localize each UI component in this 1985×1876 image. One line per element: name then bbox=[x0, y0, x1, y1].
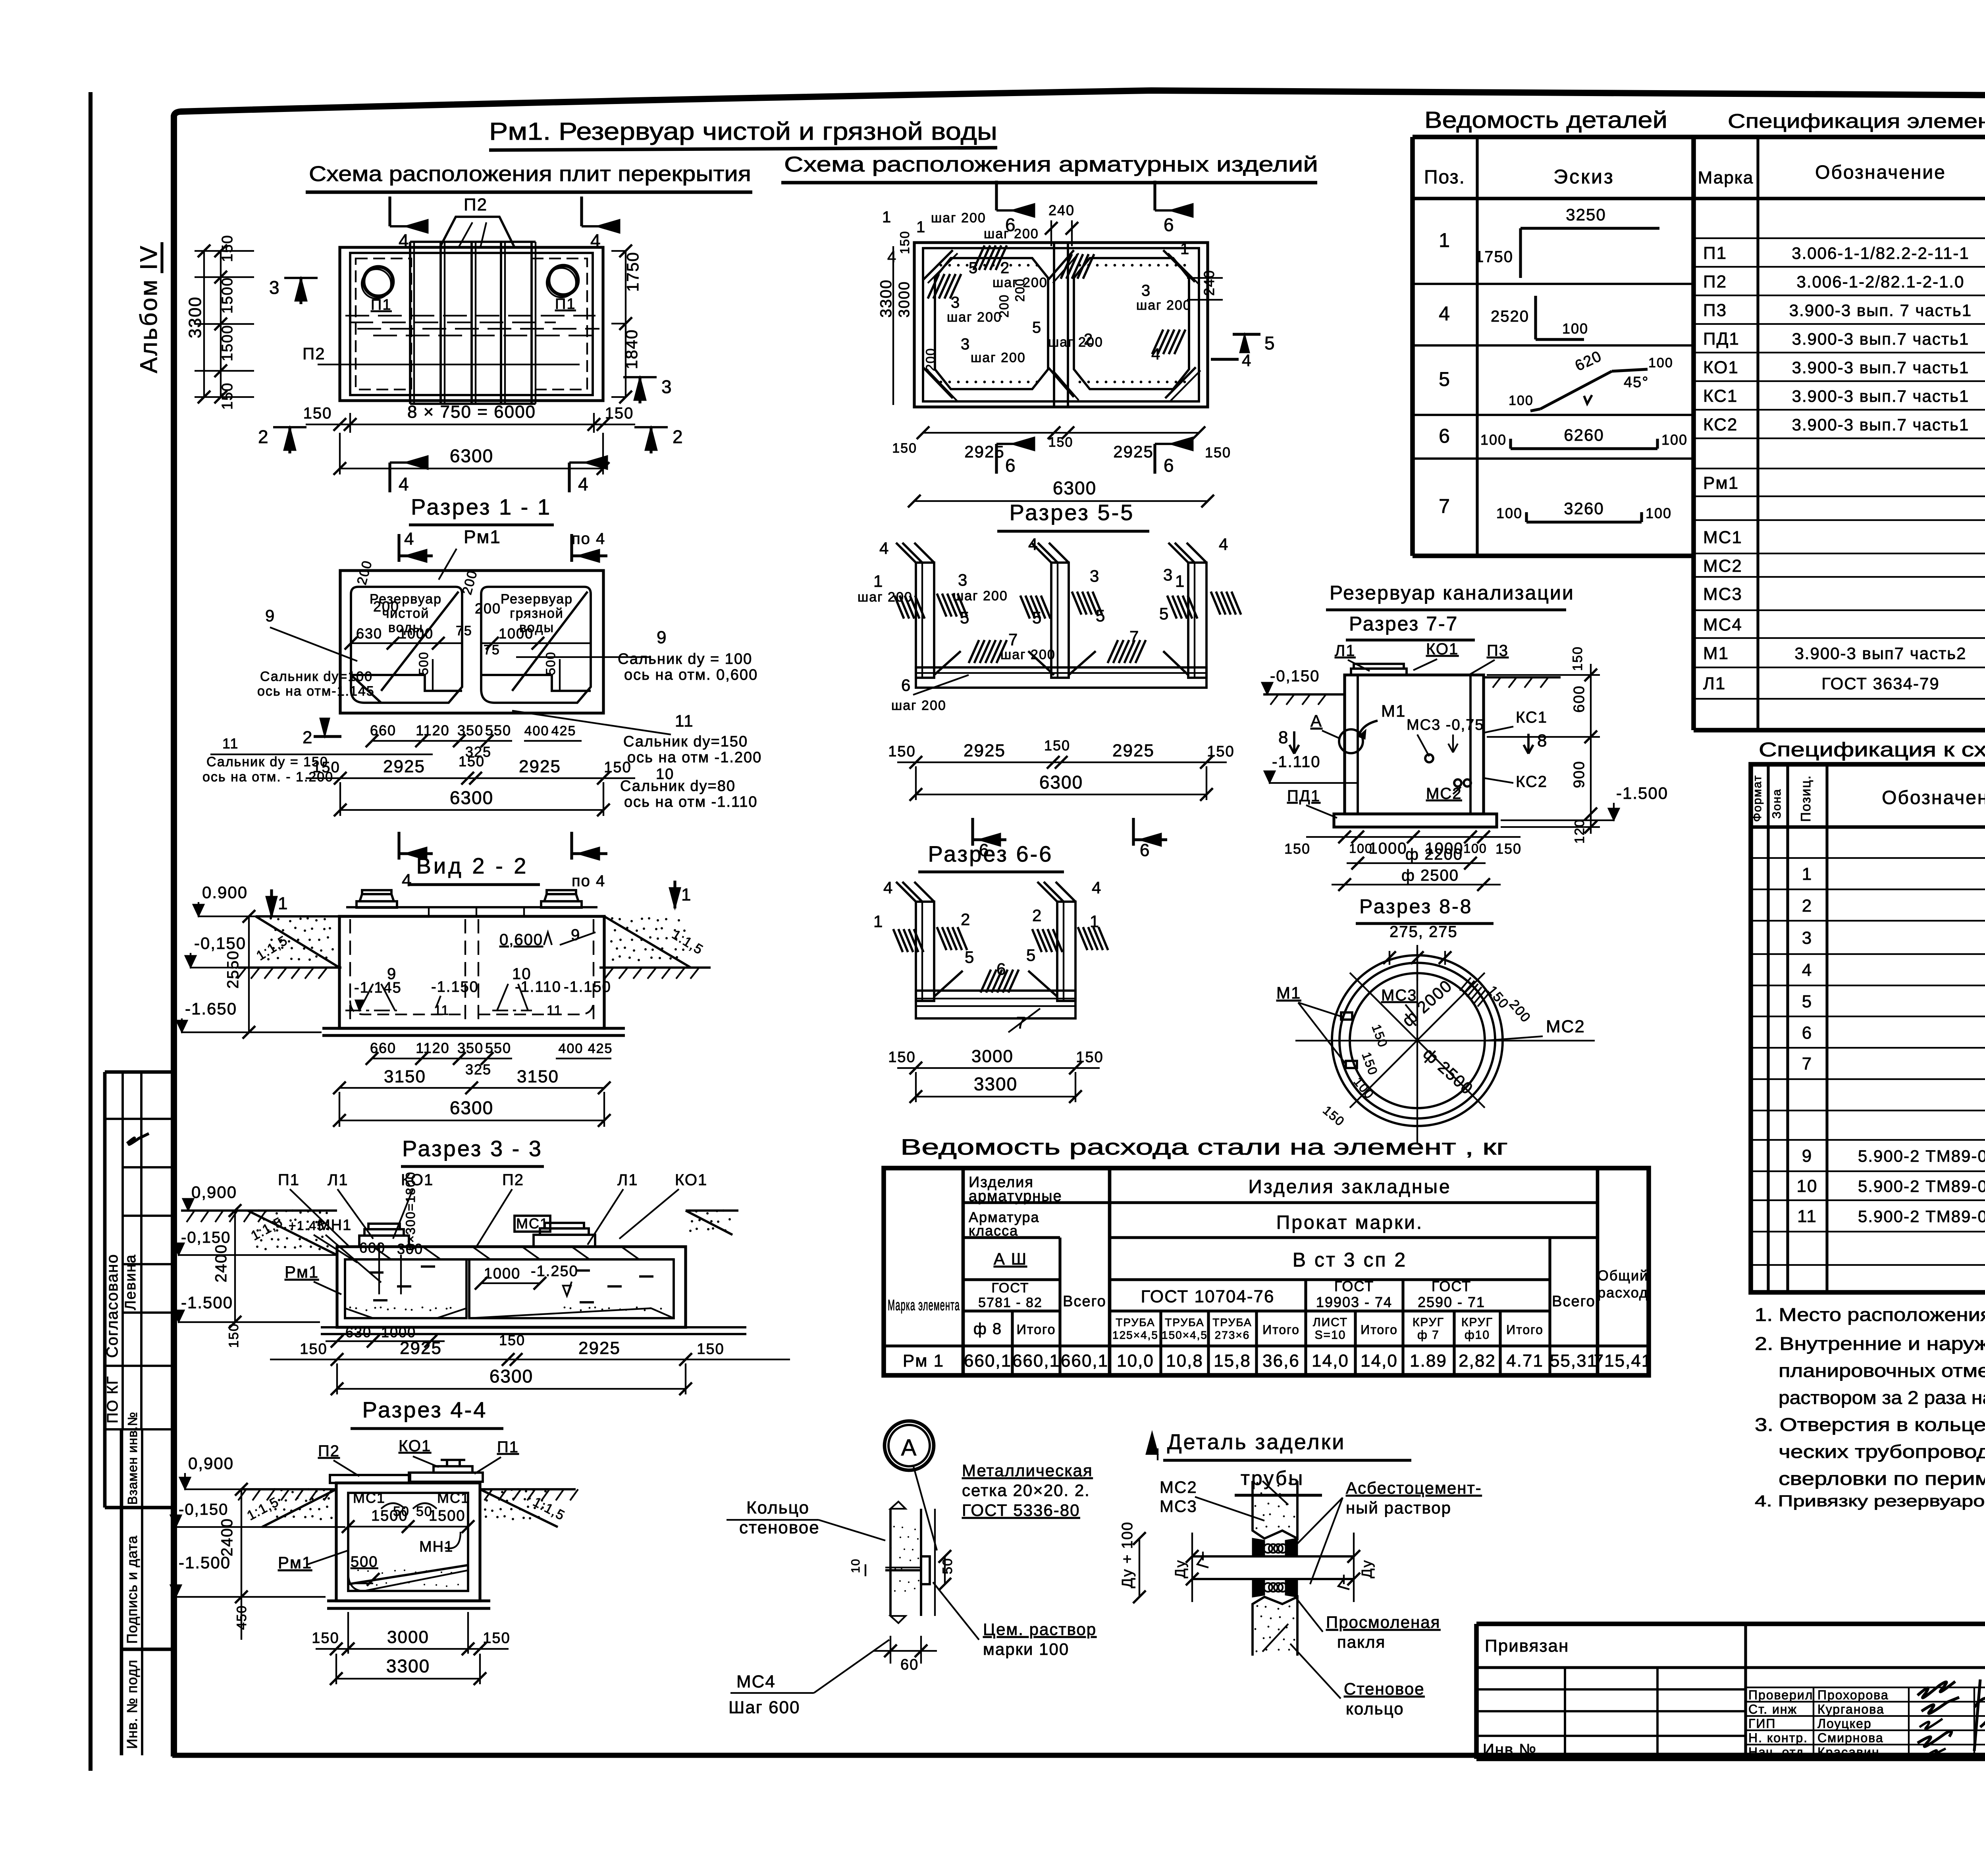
r55 dims bbox=[897, 762, 1227, 763]
svg-text:2: 2 bbox=[1032, 906, 1042, 925]
svg-text:1120: 1120 bbox=[416, 722, 449, 738]
svg-text:200: 200 bbox=[475, 600, 501, 617]
r66 rebar hatches bbox=[893, 929, 903, 952]
svg-text:660,1: 660,1 bbox=[1061, 1351, 1108, 1371]
svg-text:7: 7 bbox=[1439, 495, 1451, 517]
svg-text:4.71: 4.71 bbox=[1506, 1351, 1544, 1371]
left stamp boxes Согласовано bbox=[105, 1070, 172, 1074]
svg-text:Марка: Марка bbox=[1698, 168, 1754, 187]
svg-text:Спецификация элементов к ре: Спецификация элементов к резервуарам РМ1… bbox=[1728, 110, 1985, 132]
svg-text:4: 4 bbox=[1439, 303, 1451, 325]
svg-text:1500: 1500 bbox=[219, 277, 236, 314]
svg-text:ЛИСТ: ЛИСТ bbox=[1313, 1316, 1348, 1329]
svg-text:4: 4 bbox=[887, 248, 897, 266]
svg-text:1: 1 bbox=[1802, 864, 1812, 884]
v22 top slab and manholes bbox=[339, 915, 604, 918]
svg-text:0,600: 0,600 bbox=[499, 931, 543, 949]
r66 bottom slab bbox=[916, 991, 1075, 1018]
left stamp Подпись и дата bbox=[121, 1648, 172, 1651]
plan2 corner diagonals bbox=[923, 250, 953, 280]
svg-text:600: 600 bbox=[1571, 685, 1588, 713]
svg-text:3. Отверстия в кольце КС2 р: 3. Отверстия в кольце КС2 резервуара для… bbox=[1755, 1414, 1985, 1435]
detail wall fragment left bbox=[889, 1509, 892, 1616]
svg-text:шаг 200: шаг 200 bbox=[947, 310, 1002, 325]
svg-text:150: 150 bbox=[459, 753, 485, 769]
svg-text:Деталь заделки: Деталь заделки bbox=[1167, 1430, 1345, 1454]
svg-text:150: 150 bbox=[219, 235, 236, 262]
r77 bottom dims bbox=[1306, 836, 1521, 838]
r44 ground lines bbox=[240, 1488, 336, 1490]
svg-text:Изделия закладные: Изделия закладные bbox=[1248, 1176, 1451, 1197]
svg-text:шаг 200: шаг 200 bbox=[931, 210, 986, 226]
svg-text:900: 900 bbox=[1571, 761, 1588, 788]
svg-text:3: 3 bbox=[1090, 567, 1100, 585]
svg-text:марки 100: марки 100 bbox=[983, 1640, 1069, 1658]
svg-text:МС2: МС2 bbox=[1160, 1478, 1197, 1496]
svg-text:ось на отм -1.110: ось на отм -1.110 bbox=[624, 794, 757, 810]
svg-text:Общий: Общий bbox=[1598, 1267, 1648, 1284]
r33 tank body bbox=[337, 1247, 686, 1327]
v22 embankment right bbox=[604, 916, 691, 968]
svg-text:9: 9 bbox=[387, 965, 397, 983]
svg-text:5: 5 bbox=[1439, 368, 1451, 390]
svg-text:МС3: МС3 bbox=[1703, 584, 1742, 604]
svg-text:100: 100 bbox=[1661, 432, 1688, 448]
svg-text:1750: 1750 bbox=[1475, 248, 1513, 266]
svg-text:1000: 1000 bbox=[399, 625, 434, 642]
svg-text:кольцо: кольцо bbox=[1346, 1699, 1404, 1718]
svg-text:-0,150: -0,150 bbox=[194, 934, 246, 952]
svg-text:П2: П2 bbox=[1703, 272, 1727, 291]
svg-text:Позиц.: Позиц. bbox=[1798, 775, 1813, 822]
svg-text:1: 1 bbox=[916, 218, 926, 236]
svg-text:36,6: 36,6 bbox=[1262, 1351, 1300, 1371]
svg-text:Рм 1: Рм 1 bbox=[903, 1351, 944, 1371]
svg-text:2. Внутренние и наружные по: 2. Внутренние и наружные поверхности сте… bbox=[1755, 1333, 1985, 1354]
svg-text:Смирнова: Смирнова bbox=[1817, 1731, 1884, 1745]
r77 right dim chain bbox=[1590, 664, 1592, 834]
svg-text:Л1: Л1 bbox=[1703, 674, 1726, 693]
svg-text:3.900-3 вып7 часть2: 3.900-3 вып7 часть2 bbox=[1794, 644, 1966, 663]
r55 walls bbox=[916, 563, 934, 678]
detail 60 dim bbox=[890, 1636, 891, 1664]
svg-text:3150: 3150 bbox=[384, 1067, 426, 1086]
svg-text:2400: 2400 bbox=[212, 1244, 230, 1282]
svg-text:ПО КГ: ПО КГ bbox=[104, 1376, 121, 1423]
svg-text:1000: 1000 bbox=[381, 1324, 416, 1340]
svg-text:4: 4 bbox=[883, 878, 893, 897]
r11 chamber left bbox=[351, 587, 462, 703]
r77 ground lines bbox=[1263, 693, 1345, 696]
svg-text:Сальник dу=100: Сальник dу=100 bbox=[260, 669, 373, 684]
svg-text:раствором за 2 раза на тол: раствором за 2 раза на толщину 25 мм. bbox=[1779, 1387, 1985, 1408]
svg-text:5: 5 bbox=[1032, 319, 1042, 336]
svg-text:7: 7 bbox=[1802, 1054, 1812, 1074]
svg-text:Сальник dу = 150: Сальник dу = 150 bbox=[206, 754, 328, 769]
detail Ду+100 dim bbox=[1139, 1539, 1140, 1597]
svg-text:1: 1 bbox=[681, 885, 692, 904]
svg-text:КС1: КС1 bbox=[1516, 709, 1548, 726]
svg-text:-1.500: -1.500 bbox=[181, 1293, 233, 1312]
svg-text:8: 8 bbox=[1278, 728, 1289, 747]
svg-text:шаг 200: шаг 200 bbox=[953, 588, 1008, 603]
svg-text:6300: 6300 bbox=[450, 445, 493, 466]
title block signatures bbox=[1744, 1624, 1747, 1759]
svg-text:КО1: КО1 bbox=[1703, 358, 1739, 377]
svg-text:150: 150 bbox=[219, 382, 236, 410]
svg-text:Разрез 7-7: Разрез 7-7 bbox=[1349, 613, 1458, 635]
svg-text:150: 150 bbox=[604, 759, 631, 776]
svg-text:5: 5 bbox=[965, 948, 975, 966]
svg-text:ф 2200: ф 2200 bbox=[1405, 846, 1463, 863]
svg-text:Итого: Итого bbox=[1016, 1322, 1056, 1337]
svg-text:5: 5 bbox=[1264, 333, 1276, 353]
r11 outer box bbox=[340, 571, 603, 713]
svg-text:А: А bbox=[901, 1435, 917, 1461]
svg-text:П3: П3 bbox=[1703, 301, 1727, 320]
svg-text:-0,150: -0,150 bbox=[1270, 667, 1320, 685]
svg-text:150: 150 bbox=[1284, 841, 1310, 857]
v22 tank body bbox=[339, 916, 604, 1028]
svg-text:4: 4 bbox=[1242, 351, 1252, 370]
svg-text:-1.250: -1.250 bbox=[531, 1263, 578, 1280]
svg-text:3000: 3000 bbox=[971, 1047, 1014, 1066]
svg-text:ГОСТ 3634-79: ГОСТ 3634-79 bbox=[1821, 674, 1939, 693]
title block signatures squiggles bbox=[1918, 1681, 1955, 1698]
plan2 240 dims top bbox=[1050, 220, 1052, 246]
svg-text:0,900: 0,900 bbox=[191, 1183, 237, 1201]
svg-text:100: 100 bbox=[1562, 320, 1588, 337]
svg-text:Сальник dу=80: Сальник dу=80 bbox=[620, 778, 736, 794]
svg-text:Красавин: Красавин bbox=[1817, 1745, 1880, 1759]
svg-text:2925: 2925 bbox=[519, 757, 561, 776]
svg-text:планировочных отметок штукат: планировочных отметок штукатурятся цемен… bbox=[1779, 1360, 1985, 1381]
svg-text:150: 150 bbox=[1205, 444, 1231, 461]
svg-text:1: 1 bbox=[873, 572, 883, 590]
svg-text:ф 8: ф 8 bbox=[973, 1320, 1002, 1338]
svg-text:11: 11 bbox=[547, 1003, 562, 1018]
svg-text:-0,150: -0,150 bbox=[179, 1501, 228, 1518]
svg-text:325: 325 bbox=[465, 1061, 491, 1078]
svg-text:3250: 3250 bbox=[1566, 205, 1606, 224]
svg-text:150×4,5: 150×4,5 bbox=[1162, 1329, 1208, 1341]
svg-text:4: 4 bbox=[404, 529, 414, 549]
svg-text:Всего: Всего bbox=[1063, 1293, 1106, 1310]
svg-text:Альбом IV: Альбом IV bbox=[135, 244, 162, 373]
svg-text:5: 5 bbox=[960, 608, 970, 627]
svg-text:50: 50 bbox=[940, 1558, 955, 1574]
detail pipe bbox=[1192, 1555, 1354, 1558]
svg-text:КО1: КО1 bbox=[399, 1437, 431, 1455]
svg-text:П2: П2 bbox=[502, 1171, 524, 1189]
svg-text:3: 3 bbox=[958, 571, 968, 589]
svg-text:3.006-1-1/82.2-2-11-1: 3.006-1-1/82.2-2-11-1 bbox=[1792, 244, 1969, 262]
svg-text:5: 5 bbox=[1032, 608, 1042, 627]
svg-text:сетка 20×20. 2.: сетка 20×20. 2. bbox=[962, 1481, 1090, 1500]
svg-text:6300: 6300 bbox=[490, 1366, 533, 1386]
svg-text:11: 11 bbox=[434, 1003, 449, 1018]
r33 foundation bbox=[321, 1326, 746, 1328]
svg-text:660,1: 660,1 bbox=[964, 1351, 1012, 1371]
svg-text:Всего: Всего bbox=[1552, 1293, 1596, 1310]
svg-text:М1: М1 bbox=[1276, 983, 1301, 1002]
svg-text:4: 4 bbox=[1092, 878, 1102, 897]
svg-text:по 4: по 4 bbox=[572, 530, 605, 548]
svg-text:-1.500: -1.500 bbox=[1616, 784, 1668, 802]
svg-text:2925: 2925 bbox=[400, 1338, 442, 1358]
left stamp Взамен инв № bbox=[120, 1429, 123, 1755]
svg-text:500: 500 bbox=[416, 652, 431, 675]
svg-text:1: 1 bbox=[882, 208, 892, 226]
r88 cross lines bbox=[1295, 1040, 1595, 1041]
svg-text:грязной: грязной bbox=[510, 606, 564, 621]
svg-text:ГОСТ 5336-80: ГОСТ 5336-80 bbox=[962, 1501, 1080, 1519]
svg-text:1500: 1500 bbox=[429, 1508, 466, 1524]
svg-text:3.900-3 вып.7 часть1: 3.900-3 вып.7 часть1 bbox=[1792, 387, 1970, 405]
plan1 manhole circles П1 bbox=[364, 267, 393, 296]
svg-text:1000: 1000 bbox=[1369, 840, 1407, 857]
svg-text:6260: 6260 bbox=[1564, 426, 1604, 444]
svg-text:6: 6 bbox=[1164, 455, 1175, 476]
svg-text:11: 11 bbox=[222, 735, 239, 752]
svg-text:600: 600 bbox=[359, 1240, 385, 1256]
plan1 bottom dims bbox=[349, 413, 351, 433]
table3 grid bbox=[884, 1168, 1649, 1375]
svg-text:МС1: МС1 bbox=[516, 1215, 549, 1232]
svg-text:Лоуцкер: Лоуцкер bbox=[1817, 1716, 1872, 1731]
r55 marks 6 bottom bbox=[971, 818, 974, 846]
r77 manhole lid bbox=[1351, 669, 1407, 675]
svg-text:3.006-1-2/82.1-2-1.0: 3.006-1-2/82.1-2-1.0 bbox=[1797, 272, 1965, 291]
svg-text:ф 2500: ф 2500 bbox=[1401, 867, 1459, 884]
svg-text:Ведомость деталей: Ведомость деталей bbox=[1424, 107, 1667, 133]
svg-text:КС2: КС2 bbox=[1516, 773, 1548, 791]
svg-text:Обозначение: Обозначение bbox=[1882, 787, 1985, 808]
svg-text:200: 200 bbox=[373, 598, 399, 615]
svg-text:150: 150 bbox=[226, 1323, 241, 1348]
svg-text:ческих трубопроводов выполни: ческих трубопроводов выполнить по месту … bbox=[1779, 1441, 1985, 1462]
svg-text:3000: 3000 bbox=[387, 1627, 429, 1647]
r44 tank body bbox=[336, 1483, 480, 1601]
svg-text:Вид 2 - 2: Вид 2 - 2 bbox=[416, 853, 529, 878]
svg-text:5: 5 bbox=[1096, 606, 1106, 625]
svg-text:ось на отм. 0,600: ось на отм. 0,600 bbox=[624, 667, 758, 683]
svg-text:660: 660 bbox=[370, 722, 396, 738]
view plan Схема расположения арматурных изделий bbox=[914, 243, 1208, 407]
svg-text:Разрез 6-6: Разрез 6-6 bbox=[928, 841, 1053, 866]
svg-text:2: 2 bbox=[673, 426, 684, 447]
svg-text:Схема расположения арматурны: Схема расположения арматурных изделий bbox=[784, 152, 1318, 176]
svg-text:150: 150 bbox=[499, 1332, 525, 1348]
svg-text:КРУГ: КРУГ bbox=[1413, 1316, 1444, 1329]
svg-text:Итого: Итого bbox=[1262, 1323, 1300, 1337]
r33 roof slabs bbox=[345, 1246, 674, 1248]
svg-text:3150: 3150 bbox=[517, 1067, 559, 1086]
svg-text:150: 150 bbox=[888, 743, 915, 760]
svg-text:8: 8 bbox=[1537, 731, 1548, 750]
svg-text:240: 240 bbox=[1201, 270, 1217, 296]
svg-text:75: 75 bbox=[484, 642, 500, 657]
svg-text:4: 4 bbox=[578, 474, 589, 494]
svg-text:7: 7 bbox=[1129, 627, 1139, 646]
r33 МС1 box label bbox=[515, 1216, 550, 1232]
svg-text:0,900: 0,900 bbox=[188, 1454, 234, 1473]
title block Привязан box bbox=[1476, 1621, 1985, 1626]
svg-text:400: 400 bbox=[524, 723, 549, 738]
svg-text:630: 630 bbox=[345, 1324, 372, 1340]
detail 50 dim bbox=[944, 1556, 946, 1584]
svg-text:6: 6 bbox=[996, 960, 1006, 978]
svg-text:Инв №: Инв № bbox=[1483, 1741, 1537, 1758]
r44 3300 bbox=[336, 1678, 480, 1679]
svg-text:1000: 1000 bbox=[484, 1265, 521, 1282]
svg-text:3: 3 bbox=[961, 335, 970, 353]
svg-text:сверловки по периметру.: сверловки по периметру. bbox=[1779, 1468, 1985, 1489]
plan2 rebar hatch bundles bbox=[928, 274, 939, 299]
r11 mark 2 left bbox=[314, 735, 341, 738]
plan2 chamber1 inner octagon bbox=[935, 258, 1048, 389]
svg-text:6300: 6300 bbox=[1053, 478, 1097, 498]
svg-text:А: А bbox=[1310, 711, 1322, 730]
svg-text:Ст. инж: Ст. инж bbox=[1748, 1702, 1797, 1716]
svg-text:ТРУБА: ТРУБА bbox=[1212, 1316, 1252, 1328]
table1 right rows lines bbox=[1694, 237, 1985, 239]
table1 left rows lines bbox=[1413, 283, 1694, 285]
svg-text:шаг 200: шаг 200 bbox=[971, 350, 1026, 365]
svg-text:100: 100 bbox=[1509, 393, 1534, 408]
svg-text:М1: М1 bbox=[1703, 644, 1729, 663]
svg-text:Просмоленая: Просмоленая bbox=[1326, 1613, 1440, 1631]
r11 inner steps bbox=[351, 675, 462, 691]
svg-text:-0,150: -0,150 bbox=[181, 1229, 231, 1246]
svg-text:Ведомость расхода стали н: Ведомость расхода стали на элемент , кг bbox=[900, 1134, 1508, 1159]
svg-text:75: 75 bbox=[456, 623, 472, 638]
svg-text:150: 150 bbox=[1048, 435, 1073, 450]
svg-text:П1: П1 bbox=[497, 1438, 519, 1456]
svg-text:19903 - 74: 19903 - 74 bbox=[1316, 1294, 1392, 1310]
svg-text:Схема расположения плит пер: Схема расположения плит перекрытия bbox=[309, 162, 751, 186]
detail А circle bbox=[888, 1425, 930, 1466]
svg-text:3000: 3000 bbox=[896, 281, 913, 318]
r33 1000 -1.250 bbox=[481, 1282, 540, 1284]
svg-text:Поз.: Поз. bbox=[1424, 167, 1465, 188]
r11 dim 6300 bbox=[340, 809, 603, 811]
svg-text:ГОСТ 10704-76: ГОСТ 10704-76 bbox=[1141, 1287, 1275, 1306]
svg-text:10,8: 10,8 bbox=[1166, 1351, 1203, 1371]
left scan edge line bbox=[89, 92, 93, 1771]
svg-text:КО1: КО1 bbox=[1426, 640, 1459, 658]
svg-text:5.900-2 ТМ89-01: 5.900-2 ТМ89-01 bbox=[1858, 1177, 1985, 1195]
svg-text:3.900-3 вып. 7 часть1: 3.900-3 вып. 7 часть1 bbox=[1789, 301, 1972, 320]
svg-text:П1: П1 bbox=[1703, 243, 1727, 263]
svg-text:150: 150 bbox=[300, 1341, 327, 1357]
svg-text:ТРУБА: ТРУБА bbox=[1165, 1316, 1204, 1328]
svg-text:Рм1: Рм1 bbox=[285, 1263, 319, 1281]
svg-text:150: 150 bbox=[892, 441, 917, 456]
svg-text:2925: 2925 bbox=[1112, 741, 1154, 760]
svg-text:В ст 3 сп 2: В ст 3 сп 2 bbox=[1293, 1249, 1407, 1271]
svg-text:3300: 3300 bbox=[974, 1074, 1018, 1094]
svg-text:Асбестоцемент-: Асбестоцемент- bbox=[1346, 1479, 1482, 1497]
r11 section marks top bbox=[397, 534, 400, 562]
svg-text:ось на отм-1.145: ось на отм-1.145 bbox=[257, 684, 375, 699]
svg-text:Обозначение: Обозначение bbox=[1815, 162, 1946, 183]
svg-text:1840: 1840 bbox=[622, 329, 641, 369]
svg-text:Спецификация к схемам распол: Спецификация к схемам расположения армат… bbox=[1759, 738, 1985, 761]
svg-text:Итого: Итого bbox=[1506, 1323, 1544, 1337]
svg-text:Кольцо: Кольцо bbox=[746, 1498, 809, 1517]
svg-text:10,0: 10,0 bbox=[1117, 1351, 1154, 1371]
svg-text:3260: 3260 bbox=[1564, 499, 1604, 518]
svg-text:Сальник dу=150: Сальник dу=150 bbox=[623, 733, 748, 750]
svg-text:6: 6 bbox=[1005, 455, 1016, 476]
plan1 middle dashed band bbox=[345, 315, 595, 316]
v22 bottom dims row1 bbox=[373, 1058, 512, 1059]
r11 bottom dim rows bbox=[373, 740, 512, 742]
svg-text:2590 - 71: 2590 - 71 bbox=[1418, 1294, 1485, 1310]
table1 sketch row1 3250x1750 angle bbox=[1521, 227, 1659, 229]
svg-text:Н. контр.: Н. контр. bbox=[1748, 1731, 1808, 1745]
svg-text:6300: 6300 bbox=[450, 787, 493, 808]
plan2 mark 5 right bbox=[1233, 333, 1260, 335]
svg-text:11: 11 bbox=[1797, 1207, 1817, 1226]
plan2 left dims bbox=[892, 246, 894, 405]
svg-text:4: 4 bbox=[879, 539, 889, 557]
svg-text:1: 1 bbox=[873, 912, 883, 931]
svg-text:Разрез 4-4: Разрез 4-4 bbox=[362, 1397, 488, 1422]
svg-text:200: 200 bbox=[997, 294, 1011, 318]
svg-text:715,41: 715,41 bbox=[1594, 1351, 1652, 1371]
svg-text:Резервуар канализации: Резервуар канализации bbox=[1330, 582, 1575, 604]
r88 rings bbox=[1332, 955, 1503, 1126]
r55 inner wall lines bbox=[921, 563, 923, 678]
svg-text:1500: 1500 bbox=[219, 324, 236, 361]
table2 grid bbox=[1751, 764, 1985, 1292]
r66 corner braces bbox=[934, 971, 963, 997]
r33 right manhole stack bbox=[534, 1235, 595, 1247]
svg-text:МС2: МС2 bbox=[1703, 556, 1742, 576]
svg-text:3300: 3300 bbox=[185, 296, 205, 338]
svg-text:2: 2 bbox=[1000, 259, 1010, 277]
svg-text:Разрез 8-8: Разрез 8-8 bbox=[1359, 895, 1472, 918]
v22 section marks 1 bbox=[270, 889, 273, 917]
r11 500 dims vertical bbox=[432, 659, 434, 691]
svg-text:150: 150 bbox=[303, 405, 332, 422]
svg-text:МН1: МН1 bbox=[318, 1217, 352, 1234]
v22 ground hatch left bbox=[238, 966, 341, 969]
svg-text:9: 9 bbox=[657, 628, 667, 647]
r11 dim row 2925 bbox=[306, 777, 635, 779]
svg-text:2: 2 bbox=[1802, 896, 1812, 916]
r44 bottom dims bbox=[316, 1648, 509, 1650]
svg-text:МС2: МС2 bbox=[1426, 785, 1462, 802]
svg-text:П1: П1 bbox=[555, 296, 576, 312]
plan1 top П2 trapezoid callout bbox=[440, 217, 515, 247]
r33 bottom dims bbox=[326, 1340, 445, 1342]
svg-text:3.900-3 вып.7 часть1: 3.900-3 вып.7 часть1 bbox=[1792, 358, 1970, 377]
svg-text:-1.110: -1.110 bbox=[1272, 753, 1320, 771]
svg-text:150: 150 bbox=[312, 759, 340, 776]
svg-text:Разрез 1 - 1: Разрез 1 - 1 bbox=[411, 494, 551, 519]
svg-text:МС1: МС1 bbox=[353, 1490, 385, 1506]
svg-text:6: 6 bbox=[901, 676, 911, 694]
svg-text:ГИП: ГИП bbox=[1748, 1716, 1776, 1731]
svg-text:150: 150 bbox=[1207, 743, 1234, 760]
r66 walls bbox=[916, 902, 934, 1001]
r33 embankment right bbox=[686, 1211, 732, 1235]
svg-text:шаг 200: шаг 200 bbox=[1136, 298, 1191, 313]
svg-text:Нач. отд: Нач. отд bbox=[1748, 1745, 1804, 1759]
